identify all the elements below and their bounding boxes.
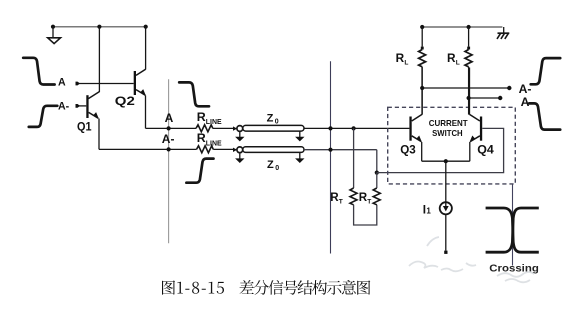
svg-text:Z: Z	[267, 112, 274, 124]
resistor R_L right top lead	[468, 27, 470, 47]
node: dot common emitter	[444, 159, 448, 163]
svg-text:R: R	[396, 51, 405, 65]
wire: Q3 collector vertical through box top	[421, 68, 423, 115]
wire: Q2 emitter vertical down to A line	[145, 96, 147, 129]
ground: left ground symbol stem	[52, 27, 54, 38]
waveform: mid rising edge below A- line	[186, 159, 213, 183]
node: dot A- branch junction	[375, 171, 379, 175]
node: dot R_T1 tap on A line	[352, 126, 356, 130]
transistor Q2 emitter arrowhead	[140, 89, 146, 96]
svg-text:R: R	[197, 110, 206, 124]
node: A input terminal arrow	[76, 82, 81, 86]
wire: Q4 collector vertical through box top	[469, 68, 471, 115]
eye diagram rising trace	[486, 208, 539, 252]
wire: A line from Q2 emitter to R_LINE	[146, 127, 197, 129]
svg-text:Q3: Q3	[400, 142, 416, 156]
transistor Q3 emitter slant	[412, 136, 422, 142]
resistor R_LINE bottom zigzag	[197, 146, 214, 153]
node: dot rail at R_L right	[467, 25, 471, 29]
transistor Q2 base bar	[134, 71, 136, 95]
resistor R_L left top lead	[421, 27, 423, 47]
ground: right chassis ground	[503, 27, 505, 33]
resistor R_L left top blob	[421, 47, 424, 50]
transistor Q1 emitter arrowhead	[93, 112, 99, 119]
waveform: mid falling edge above A line	[179, 82, 209, 106]
svg-text:L: L	[456, 59, 460, 66]
transmission line Z0 top: body	[243, 125, 304, 131]
svg-text:A-: A-	[162, 132, 175, 146]
transistor Q3 collector slant	[412, 114, 422, 121]
transistor Q1 emitter slant	[89, 112, 99, 118]
transistor Q4 base bar	[480, 117, 482, 141]
svg-text:A: A	[521, 95, 530, 109]
svg-text:L: L	[404, 59, 408, 66]
resistor R_T1 bottom lead and U link	[354, 205, 377, 225]
resistor R_L left bottom lead	[421, 67, 423, 115]
resistor R_T1 top lead	[353, 128, 355, 188]
svg-text:A: A	[165, 111, 174, 125]
node: dot rail at R_L left	[420, 25, 424, 29]
ground stub: Z0 bottom right termination	[299, 153, 301, 159]
node: dot A- line on gray line 1	[167, 147, 171, 151]
resistor R_T2 zigzag	[373, 188, 380, 205]
resistor R_T1 zigzag	[350, 188, 357, 205]
wire: Q1 emitter vertical down	[98, 119, 100, 150]
ground stub: Z0 top left termination	[239, 132, 241, 138]
reference line: vertical gray line 1	[168, 79, 170, 243]
node: A- input terminal arrow	[76, 104, 81, 108]
svg-text:LINE: LINE	[206, 140, 222, 147]
wire: current source to terminal	[445, 214, 447, 250]
node: dot A line on gray line 2	[328, 126, 332, 130]
transistor Q1 collector slant	[88, 92, 99, 99]
svg-text:Q1: Q1	[77, 120, 92, 134]
current switch dashed box	[388, 107, 516, 184]
transistor Q4 emitter arrowhead	[470, 136, 476, 143]
transmission line Z0 top: input circle	[237, 126, 243, 132]
wire: A input to Q2 base	[79, 83, 134, 85]
wire: common emitter link	[422, 160, 470, 162]
resistor R_L right zigzag	[465, 50, 472, 67]
wire: A- line from Q1 emitter to R_LINE	[99, 148, 197, 150]
wire: Q1 base lead from A- terminal	[79, 105, 87, 107]
reference line: vertical gray line 3	[512, 184, 514, 266]
transistor Q2 collector slant	[136, 69, 146, 75]
waveform: output A- rising edge	[531, 58, 561, 84]
svg-text:T: T	[367, 198, 371, 205]
wire: Q1 collector vertical	[98, 27, 100, 92]
svg-text:0: 0	[275, 119, 279, 126]
node: dot A output start	[467, 96, 471, 100]
wire: tail down to current source	[445, 161, 447, 202]
resistor R_L left zigzag	[419, 50, 426, 67]
transistor Q1 base bar	[86, 95, 88, 118]
transistor Q3 emitter arrowhead	[416, 136, 422, 143]
node: dot A- output end	[507, 86, 511, 90]
transistor Q4 collector slant	[470, 114, 480, 121]
svg-text:A: A	[58, 77, 66, 89]
node: dot A- output start	[420, 86, 424, 90]
reference line: vertical gray line 2	[330, 61, 332, 253]
ground stub: Z0 bottom left termination	[239, 153, 241, 159]
ground: left ground open triangle	[48, 38, 61, 44]
svg-text:A-: A-	[58, 100, 70, 112]
svg-text:T: T	[339, 198, 343, 205]
transistor Q3 base bar	[409, 117, 411, 141]
svg-text:Q2: Q2	[115, 94, 135, 108]
waveform: input A falling edge	[23, 58, 54, 85]
transistor Q2 emitter slant	[136, 90, 145, 96]
wire: A output line	[469, 97, 501, 99]
wire: A- output line	[422, 87, 509, 89]
artifact smudges	[409, 237, 534, 282]
wire: A line Z0 to Q3 base	[304, 127, 409, 129]
svg-text:Z: Z	[267, 159, 274, 171]
wire: left top supply rail	[53, 26, 146, 28]
resistor R_T2 top lead	[376, 173, 378, 188]
node: bottom terminal square	[444, 251, 447, 254]
node: dot A line on gray line 1	[167, 126, 171, 130]
svg-text:0: 0	[275, 165, 279, 172]
transmission line Z0 bottom: input circle	[237, 147, 243, 153]
wire: Q4 emitter vertical down	[469, 142, 471, 161]
waveform: input A- rising edge	[29, 106, 57, 127]
svg-text:R: R	[447, 51, 456, 65]
resistor R_LINE top zigzag	[196, 125, 213, 132]
node: dot A output end	[498, 96, 502, 100]
wire: A- line Z0 to corner	[304, 149, 377, 151]
svg-text:R: R	[197, 131, 206, 145]
wire: A- branch down at x=377	[376, 150, 378, 173]
transmission line Z0 bottom: body	[243, 147, 304, 153]
node: dot A- line on gray line 2	[328, 148, 332, 152]
svg-text:CURRENT: CURRENT	[429, 119, 468, 128]
svg-text:1: 1	[426, 207, 431, 216]
svg-text:LINE: LINE	[206, 119, 222, 126]
svg-text:Q4: Q4	[477, 142, 494, 156]
wire: A- line R_LINE to Z0 with arrowhead	[213, 148, 233, 150]
node: junction dot Q2 collector on rail	[144, 25, 148, 29]
wire: Q3 emitter vertical down	[421, 142, 423, 161]
wire: Q2 collector vertical	[145, 27, 147, 70]
eye diagram falling trace	[486, 208, 539, 252]
caption: 图1-8-15 差分信号结构示意图	[162, 280, 370, 295]
waveform: output A falling edge	[529, 103, 560, 129]
node: junction dot Q1 collector on rail	[97, 25, 101, 29]
resistor R_L right bottom lead	[468, 67, 470, 115]
current source I1 internal arrow	[445, 202, 447, 207]
wire: A line R_LINE to Z0 with arrowhead	[213, 127, 234, 129]
ground stub: Z0 top right termination	[299, 132, 301, 138]
current source I1 circle	[440, 202, 452, 214]
resistor R_L right top blob	[467, 47, 470, 50]
wire: right top supply rail	[422, 26, 502, 28]
transistor Q4 emitter slant	[470, 136, 480, 142]
svg-text:SWITCH: SWITCH	[432, 129, 463, 138]
wire: A- feed to Q4 base (right, up, left)	[377, 128, 504, 172]
node: junction dot left rail at ground	[51, 25, 55, 29]
